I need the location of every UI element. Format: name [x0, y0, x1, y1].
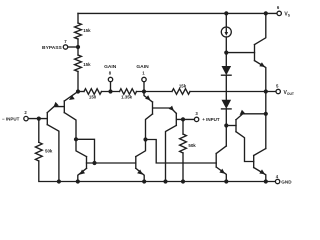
svg-text:5: 5: [276, 83, 279, 88]
svg-text:VOUT: VOUT: [284, 90, 295, 96]
svg-text:1: 1: [142, 70, 145, 75]
svg-text:2: 2: [24, 110, 27, 115]
svg-text:15k: 15k: [83, 62, 91, 67]
svg-text:150: 150: [89, 94, 97, 99]
svg-text:− INPUT: − INPUT: [2, 116, 20, 121]
svg-text:3: 3: [195, 111, 198, 116]
svg-text:50k: 50k: [45, 148, 53, 153]
svg-text:+ INPUT: + INPUT: [202, 117, 220, 122]
svg-text:GND: GND: [281, 179, 292, 184]
svg-text:15k: 15k: [179, 83, 187, 88]
svg-text:8: 8: [109, 70, 112, 75]
svg-text:7: 7: [64, 39, 67, 44]
svg-text:15k: 15k: [83, 28, 91, 33]
svg-text:VS: VS: [284, 12, 290, 18]
svg-text:GAIN: GAIN: [104, 64, 117, 70]
svg-text:50k: 50k: [188, 143, 196, 148]
svg-text:6: 6: [277, 5, 280, 10]
svg-text:1.35k: 1.35k: [121, 94, 133, 99]
svg-text:4: 4: [276, 174, 279, 179]
svg-text:BYPASS: BYPASS: [42, 45, 62, 51]
svg-text:GAIN: GAIN: [136, 64, 149, 70]
